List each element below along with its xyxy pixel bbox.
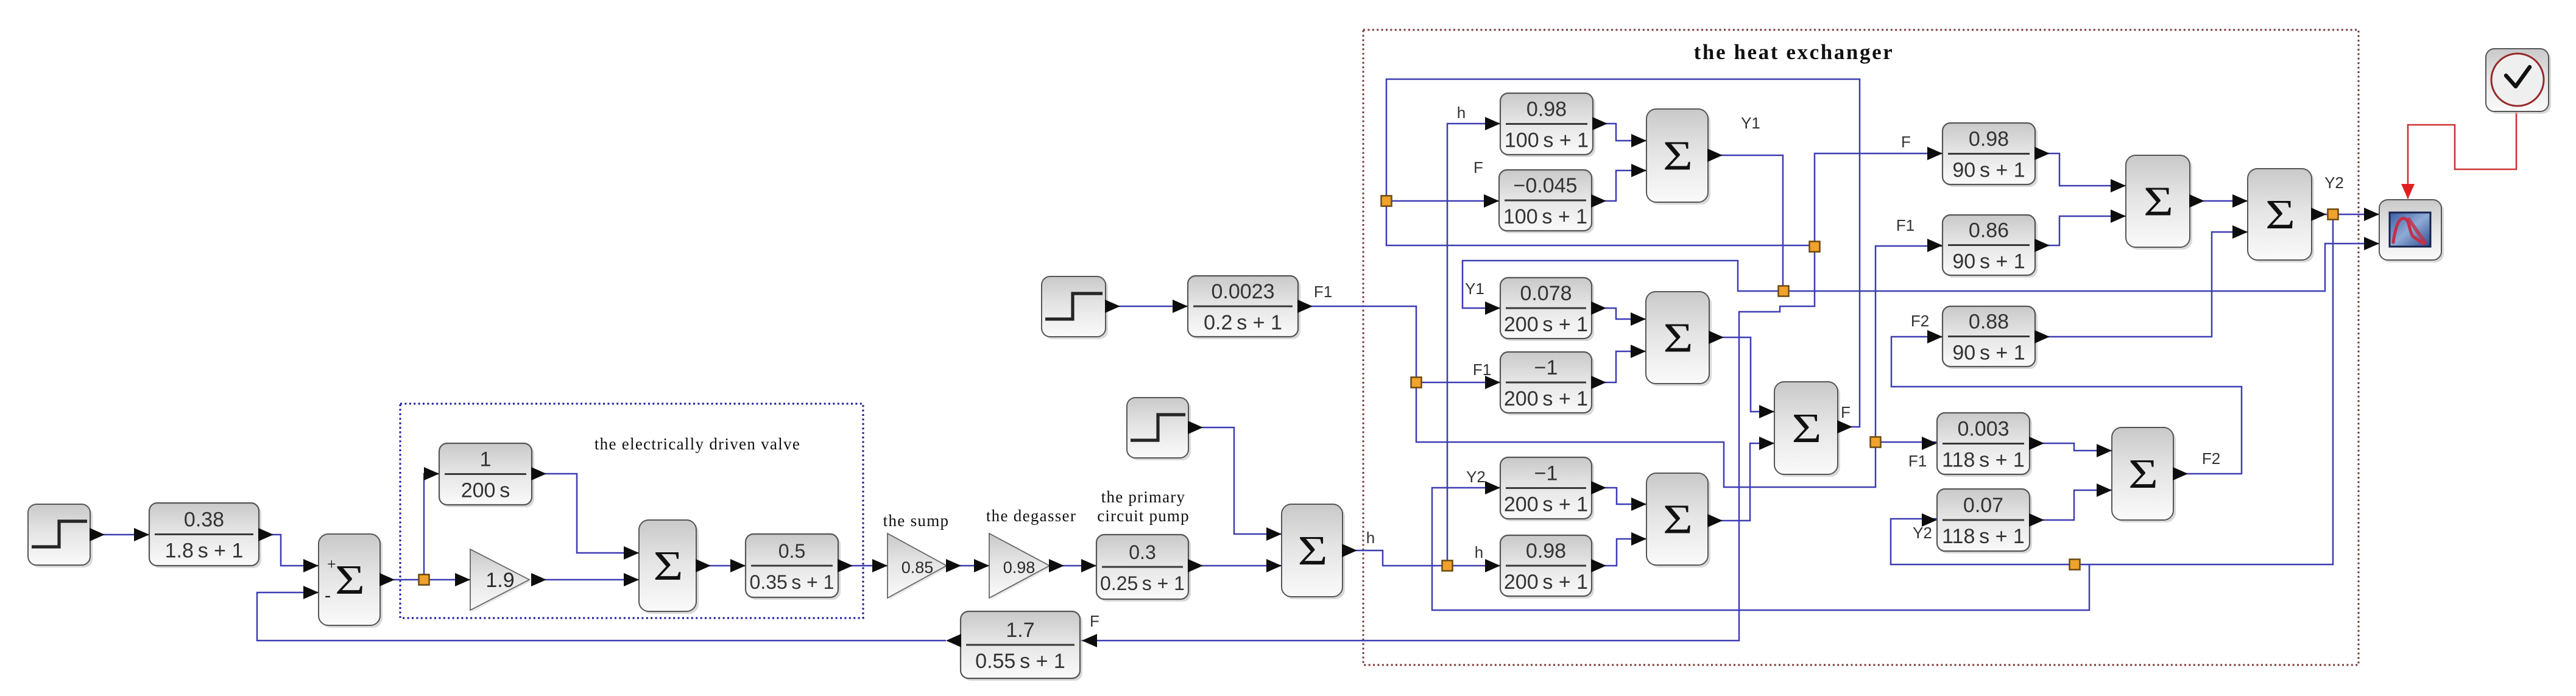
tf 0.98/(200s+1)	[1500, 535, 1594, 599]
svg-text:0.55 s + 1: 0.55 s + 1	[975, 650, 1065, 673]
svg-text:Y2: Y2	[1913, 524, 1932, 542]
svg-text:the electrically driven valve: the electrically driven valve	[595, 435, 800, 453]
wire gain1.9 to sum2 in2	[532, 579, 639, 581]
out sum3	[1709, 331, 1724, 344]
svg-text:circuit pump: circuit pump	[1097, 507, 1190, 525]
svg-text:−1: −1	[1534, 356, 1558, 379]
in -0.045	[1484, 194, 1499, 208]
svg-text:h: h	[1366, 529, 1375, 547]
svg-text:0.07: 0.07	[1963, 494, 2003, 517]
in 0.5	[730, 559, 746, 572]
svg-text:Y1: Y1	[1741, 114, 1760, 132]
red arrow into scope	[2401, 184, 2415, 199]
svg-text:0.35 s + 1: 0.35 s + 1	[750, 571, 835, 593]
in -1/200b	[1485, 481, 1500, 494]
out 0.07	[2029, 513, 2044, 527]
wire 0.98/200 to sum4 in2	[1592, 539, 1646, 566]
out sumY1	[1707, 149, 1723, 162]
scope block	[2379, 200, 2444, 262]
wire F1 down and around	[1416, 382, 1937, 487]
in sum6 1	[2232, 194, 2248, 208]
svg-text:0.3: 0.3	[1129, 541, 1156, 563]
wire 0.5 to gain0.85	[838, 565, 887, 567]
tf -0.045/(100s+1)	[1499, 170, 1594, 233]
tf 0.07/(118s+1)	[1937, 489, 2032, 554]
svg-text:0.5: 0.5	[778, 540, 805, 562]
valve dotted box	[400, 404, 863, 618]
tf 0.3/(0.25s+1)	[1096, 535, 1191, 602]
wire Y1 loop to 0.078	[1463, 261, 1784, 308]
in sum7 2	[2097, 483, 2112, 497]
sum7	[2112, 427, 2176, 522]
out 0.078	[1591, 301, 1606, 315]
svg-text:Σ: Σ	[1663, 496, 1693, 543]
wire 1/200s to sum2 in1	[532, 474, 639, 553]
out 0.5	[838, 559, 853, 572]
sum5	[2126, 155, 2192, 250]
svg-text:h: h	[1475, 543, 1483, 561]
in 0.98/90	[1927, 147, 1943, 160]
out sumF	[1837, 420, 1852, 434]
wire -0.045 to sumY1 in2	[1592, 170, 1646, 201]
out -0.045	[1591, 194, 1606, 208]
wire red clock wire	[2408, 111, 2516, 199]
svg-text:118 s + 1: 118 s + 1	[1942, 525, 2025, 548]
svg-text:F1: F1	[1908, 452, 1927, 470]
out sum2	[696, 559, 711, 572]
wire 0.98/100 to sumY1 in1	[1593, 124, 1646, 141]
svg-text:−0.045: −0.045	[1514, 174, 1578, 197]
junction F1 entry	[1411, 378, 1422, 388]
svg-text:90 s + 1: 90 s + 1	[1952, 250, 2025, 273]
svg-text:0.85: 0.85	[902, 558, 934, 577]
svg-text:0.078: 0.078	[1520, 282, 1572, 305]
wire sumh out h line	[1343, 550, 1500, 566]
wire F2 feedback to 0.88	[1891, 337, 2242, 474]
wire step2 to 0.0023	[1106, 306, 1188, 308]
svg-text:90 s + 1: 90 s + 1	[1952, 159, 2025, 182]
svg-text:1: 1	[480, 448, 492, 471]
out g085	[946, 559, 961, 572]
svg-text:−1: −1	[1534, 462, 1558, 485]
in scope 1	[2364, 208, 2379, 221]
svg-text:the primary: the primary	[1101, 488, 1185, 506]
svg-text:Σ: Σ	[2128, 450, 2158, 497]
wire 0.86/90 to sum5 in2	[2035, 216, 2126, 245]
svg-text:200 s + 1: 200 s + 1	[1504, 313, 1588, 336]
in 0.98/100	[1485, 117, 1500, 130]
svg-text:200 s + 1: 200 s + 1	[1504, 493, 1588, 516]
svg-text:0.86: 0.86	[1969, 219, 2009, 242]
in 0.98/200	[1485, 559, 1500, 572]
heat exchanger dotted box	[1363, 30, 2359, 665]
svg-text:Σ: Σ	[2265, 191, 2295, 237]
in 0.003	[1922, 437, 1937, 450]
in sum7 1	[2097, 444, 2112, 457]
svg-text:Y2: Y2	[1466, 468, 1486, 486]
junction Y1 split	[1779, 286, 1789, 297]
svg-text:-: -	[325, 585, 331, 605]
step block 3	[1127, 398, 1191, 460]
svg-text:1.9: 1.9	[485, 569, 514, 592]
svg-text:200 s + 1: 200 s + 1	[1504, 571, 1588, 594]
svg-text:F: F	[1901, 133, 1911, 151]
sum1 +/-	[319, 534, 383, 628]
in 0.86/90	[1927, 239, 1943, 252]
svg-text:F1: F1	[1314, 283, 1332, 301]
svg-text:F2: F2	[2202, 449, 2220, 468]
out 0.98/200	[1591, 559, 1606, 572]
tf 0.0023/(0.2s+1)	[1188, 276, 1300, 339]
wire gain0.85 to gain0.98	[947, 565, 989, 567]
in 1/200s	[424, 467, 439, 480]
wire sum6 out to scope in1	[2312, 214, 2379, 216]
in sumY1 1	[1631, 134, 1646, 147]
out 0.88/90	[2034, 330, 2050, 343]
in sum3 2	[1631, 345, 1646, 358]
out 0.38	[258, 528, 273, 541]
out step1	[90, 528, 105, 541]
out sum4	[1707, 514, 1723, 527]
sum F	[1774, 382, 1840, 477]
out g098	[1049, 559, 1064, 572]
svg-text:200 s: 200 s	[461, 479, 510, 502]
out -1/200b	[1591, 481, 1606, 494]
out step3	[1188, 421, 1203, 434]
in sum4 1	[1631, 497, 1646, 511]
svg-text:0.25 s + 1: 0.25 s + 1	[1100, 572, 1185, 594]
svg-text:h: h	[1457, 104, 1466, 122]
wire F1 up to 0.86	[1876, 246, 1943, 442]
in sum2 1	[624, 546, 639, 560]
out -1/200a	[1591, 376, 1606, 389]
out 0.98/100	[1592, 117, 1607, 130]
out sum6	[2311, 208, 2326, 221]
in sumY1 2	[1631, 164, 1646, 177]
in sum6 2	[2232, 225, 2248, 239]
tf 0.5/(0.35s+1)	[746, 534, 841, 600]
wire F branch to 0.98/90	[1815, 153, 1943, 245]
wire F1 entry	[1298, 306, 1500, 382]
in sum1 minus	[303, 586, 319, 599]
out gain1.9	[531, 573, 546, 586]
svg-text:1.7: 1.7	[1006, 619, 1034, 642]
in g098	[974, 559, 989, 572]
in sum4 2	[1631, 532, 1646, 546]
svg-text:100 s + 1: 100 s + 1	[1503, 205, 1587, 228]
svg-text:the sump: the sump	[883, 511, 950, 530]
svg-text:0.88: 0.88	[1969, 311, 2009, 334]
svg-text:0.38: 0.38	[184, 508, 224, 532]
svg-text:Σ: Σ	[654, 542, 683, 589]
sum4	[1646, 473, 1710, 568]
tf 1/(200s)	[439, 443, 534, 507]
tf 0.38/(1.8s+1)	[149, 503, 261, 568]
out 0.86/90	[2034, 239, 2050, 252]
junction Y2 bottom split	[2070, 560, 2080, 570]
in 1.7 right	[1082, 634, 1097, 647]
out sum5	[2189, 194, 2204, 208]
wire sum5 to sum6 in1	[2190, 200, 2248, 202]
in sum5 2	[2111, 209, 2126, 223]
in gain1.9	[455, 573, 470, 586]
out 1.7 left	[946, 634, 961, 647]
tf -1/(200s+1) b	[1500, 457, 1594, 521]
wire 0.07 to sum7 in2	[2030, 490, 2112, 520]
wire h branch up to 0.98/100	[1447, 124, 1500, 566]
wire sum2 to 0.5	[696, 565, 746, 567]
svg-text:the heat exchanger: the heat exchanger	[1694, 40, 1894, 64]
gain 0.85 the sump	[887, 533, 948, 600]
tf 0.86/(90s+1)	[1943, 215, 2038, 278]
wire step1 to 0.38	[90, 534, 149, 536]
wire F branch to -0.045	[1386, 200, 1499, 202]
out sum7	[2173, 467, 2188, 480]
svg-text:Σ: Σ	[1663, 132, 1693, 179]
step block 2	[1042, 276, 1108, 339]
in sumh 1	[1266, 527, 1282, 541]
out 0.003	[2029, 437, 2044, 450]
junction F split	[1810, 242, 1820, 252]
step block 1	[28, 504, 93, 568]
svg-text:Y2: Y2	[2324, 174, 2344, 192]
in g085	[872, 559, 887, 572]
svg-text:Σ: Σ	[1298, 527, 1328, 574]
in 0.07	[1922, 513, 1937, 527]
tf 0.003/(118s+1)	[1937, 413, 2032, 477]
sum Y1	[1646, 109, 1710, 205]
svg-text:F2: F2	[1911, 312, 1929, 330]
clock block	[2486, 49, 2551, 114]
in 0.38	[134, 528, 149, 541]
junction Y2 out split	[2328, 209, 2338, 220]
gain 1.9	[470, 549, 531, 612]
svg-text:Σ: Σ	[1664, 314, 1693, 361]
gain 0.98 the degasser	[989, 533, 1051, 600]
svg-text:Y1: Y1	[1465, 279, 1484, 298]
out 0.3	[1188, 559, 1203, 572]
in sumF 2	[1759, 437, 1774, 450]
wire 0.98/90 to sum5 in1	[2035, 153, 2126, 186]
svg-text:F1: F1	[1473, 360, 1491, 379]
svg-text:0.0023: 0.0023	[1212, 280, 1275, 303]
svg-text:Σ: Σ	[1792, 404, 1822, 451]
out 0.98/90	[2034, 147, 2050, 160]
out 1/200s	[531, 467, 546, 480]
out 0.0023	[1297, 300, 1313, 313]
sum6	[2248, 169, 2314, 262]
wire Y1 out to scope in2	[1708, 155, 2379, 291]
svg-text:Σ: Σ	[2144, 178, 2173, 225]
tf -1/(200s+1) a	[1500, 352, 1594, 415]
svg-text:0.98: 0.98	[1526, 98, 1567, 121]
in 0.3	[1081, 559, 1096, 572]
out step2	[1105, 300, 1120, 313]
in sum5 1	[2111, 179, 2126, 192]
svg-text:0.003: 0.003	[1957, 418, 2009, 441]
in sum2 2	[624, 573, 639, 586]
svg-text:the degasser: the degasser	[986, 507, 1076, 525]
svg-text:0.2 s + 1: 0.2 s + 1	[1204, 311, 1282, 334]
wire gain0.98 to 0.3	[1050, 565, 1096, 567]
svg-text:F1: F1	[1896, 216, 1914, 234]
sum2	[639, 520, 699, 614]
wire Y2 bottom to -1/200b	[1432, 488, 2089, 610]
wire step3 to sumh in1	[1188, 427, 1282, 534]
svg-text:100 s + 1: 100 s + 1	[1505, 129, 1589, 152]
in sumF 1	[1759, 405, 1774, 418]
sum h	[1282, 504, 1345, 599]
svg-text:0.98: 0.98	[1969, 128, 2009, 151]
wire sum4 to sumF in2	[1708, 443, 1774, 521]
out sum1	[379, 573, 395, 586]
out sumh	[1342, 544, 1357, 557]
wire 0.078 to sum3 in1	[1592, 308, 1646, 319]
in 0.88/90	[1927, 330, 1943, 343]
junction after sum1	[419, 575, 429, 585]
tf 0.98/(90s+1)	[1943, 123, 2038, 187]
svg-text:F: F	[1841, 403, 1851, 421]
wire -1/200 to sum3 in2	[1592, 351, 1646, 382]
junction F at -0.045	[1382, 196, 1392, 206]
in sumh 2	[1266, 559, 1282, 572]
wire F out top loop	[1386, 79, 1860, 427]
junction h line	[1442, 561, 1453, 571]
in -1/200a	[1485, 376, 1500, 389]
svg-text:200 s + 1: 200 s + 1	[1504, 387, 1588, 410]
wire Y2 down distribution	[1891, 214, 2333, 564]
svg-text:0.98: 0.98	[1003, 558, 1036, 577]
in 0.078	[1485, 301, 1500, 315]
wire feedback 1.7 to sum1-	[257, 592, 946, 641]
wire 0.88/90 to sum6 in2	[2035, 232, 2248, 337]
svg-text:0.98: 0.98	[1526, 540, 1566, 563]
svg-text:1.8 s + 1: 1.8 s + 1	[165, 540, 244, 563]
tf 0.88/(90s+1)	[1943, 306, 2038, 369]
wire F descent to 1.7	[1080, 245, 1815, 641]
wire sum1 out to gain1.9	[380, 579, 470, 581]
in sum1 plus	[303, 559, 319, 572]
wire 0.3 to sumh in2	[1188, 565, 1282, 567]
wire sum3 to sumF in1	[1709, 337, 1774, 412]
tf 1.7/(0.55s+1)	[961, 611, 1082, 681]
svg-text:F: F	[1090, 612, 1099, 630]
sum3	[1646, 292, 1712, 386]
wire 0.38 to sum1+	[259, 535, 319, 566]
wire -1/200b to sum4 in1	[1592, 488, 1646, 504]
svg-text:F: F	[1473, 158, 1483, 177]
in 0.0023	[1173, 300, 1188, 313]
svg-text:90 s + 1: 90 s + 1	[1952, 342, 2025, 365]
svg-text:118 s + 1: 118 s + 1	[1942, 449, 2025, 472]
in scope 2	[2364, 237, 2379, 250]
svg-text:+: +	[327, 555, 336, 573]
svg-text:Σ: Σ	[335, 556, 365, 603]
wire branch to 1/200s	[424, 474, 439, 580]
tf 0.98/(100s+1)	[1500, 93, 1595, 157]
junction F1 split right	[1871, 437, 1881, 448]
in sum3 1	[1631, 312, 1646, 326]
wire 0.003 to sum7 in1	[2030, 443, 2112, 451]
tf 0.078/(200s+1)	[1500, 278, 1594, 341]
